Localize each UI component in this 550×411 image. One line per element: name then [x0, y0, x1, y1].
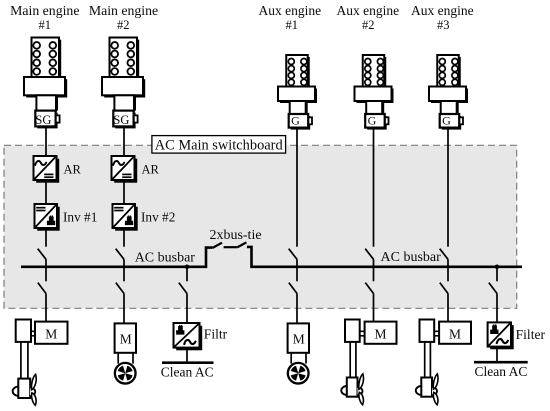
label: Main engine #2 — [89, 3, 158, 32]
wire SG1 to AR — [45, 126, 47, 156]
svg-text:AR: AR — [64, 162, 82, 176]
label box: AC Main switchboard — [152, 136, 286, 154]
aux engine #1 (diesel block) — [278, 55, 317, 114]
rectifier AR (main engine #1) — [34, 156, 82, 183]
AC busbar right section — [247, 247, 522, 267]
svg-text:#2: #2 — [362, 18, 375, 32]
wire AR to Inv #1 — [45, 180, 47, 204]
circuit breaker above busbar (Inv #1) — [38, 249, 46, 268]
motor M (tunnel thruster 1) — [115, 323, 136, 363]
generator G (aux #2) — [365, 113, 388, 129]
svg-text:Filtr: Filtr — [204, 326, 228, 341]
svg-text:Aux engine: Aux engine — [336, 3, 399, 18]
junction node (Filtr tap) — [185, 265, 190, 270]
shaft generator SG1 — [35, 111, 59, 129]
wire generator G2 to breaker — [373, 128, 375, 247]
main engine #2 (diesel block) — [102, 38, 145, 111]
svg-text:#3: #3 — [437, 18, 450, 32]
tunnel thruster fan 1 — [115, 363, 136, 384]
svg-text:M: M — [374, 327, 386, 342]
circuit breaker above busbar (G1) — [289, 249, 297, 268]
harmonic filter Filtr — [174, 323, 228, 350]
wire AR to Inv #2 — [123, 180, 125, 204]
label: Aux engine #1 — [258, 3, 321, 32]
wire Filtr to clean bus — [186, 348, 188, 363]
svg-text:AC busbar: AC busbar — [135, 250, 196, 265]
circuit breaker + feeder below busbar (azimuth thruster 1) — [38, 266, 46, 322]
label: Aux engine #2 — [336, 3, 399, 32]
circuit breaker + feeder below busbar (azimuth thruster 3) — [440, 266, 448, 322]
wire Inv #2 to breaker — [123, 228, 125, 247]
harmonic filter Filter — [488, 322, 546, 349]
shaft generator SG2 — [113, 111, 137, 129]
aux engine #3 (diesel block) — [429, 55, 468, 114]
svg-text:Inv #2: Inv #2 — [141, 210, 175, 225]
switchboard enclosure (AC Main switchboard area) — [4, 145, 517, 308]
motor M (azimuth thruster 2) — [345, 320, 397, 344]
tunnel thruster fan 2 — [288, 363, 309, 384]
svg-text:M: M — [120, 331, 132, 346]
generator G (aux #3) — [440, 113, 463, 129]
label: Aux engine #3 — [411, 3, 474, 32]
svg-text:Aux engine: Aux engine — [258, 3, 321, 18]
svg-text:Clean AC: Clean AC — [474, 364, 527, 379]
azimuth thruster 1 pod and propeller — [13, 342, 37, 405]
main engine #1 (diesel block) — [24, 38, 67, 111]
svg-text:#1: #1 — [286, 18, 299, 32]
circuit breaker above busbar (G2) — [365, 249, 373, 268]
bus-tie breaker blade 2 — [237, 242, 246, 247]
junction node (Filter tap) — [495, 265, 500, 270]
svg-text:G: G — [442, 113, 451, 127]
svg-text:G: G — [368, 113, 377, 127]
svg-text:2xbus-tie: 2xbus-tie — [209, 228, 261, 243]
Clean AC bus (right) — [474, 362, 528, 379]
Clean AC bus (left) — [161, 363, 214, 380]
circuit breaker + feeder below busbar (Filter) — [489, 266, 497, 323]
wire Filter to clean bus — [496, 347, 498, 363]
svg-text:Main engine: Main engine — [89, 3, 158, 18]
svg-text:M: M — [45, 327, 57, 342]
azimuth thruster 3 pod and propeller — [416, 342, 438, 405]
motor M (azimuth thruster 1) — [16, 320, 68, 344]
svg-text:Aux engine: Aux engine — [411, 3, 474, 18]
label: Main engine #1 — [10, 3, 79, 32]
circuit breaker + feeder below busbar (tunnel thruster 2) — [289, 266, 297, 324]
wire SG2 to AR — [123, 126, 125, 156]
inverter Inv #2 — [113, 204, 176, 231]
AC busbar left section — [21, 248, 213, 267]
svg-text:M: M — [293, 331, 305, 346]
svg-text:M: M — [449, 327, 461, 342]
motor M (azimuth thruster 3) — [420, 320, 472, 344]
generator G (aux #1) — [289, 113, 312, 129]
svg-text:AC Main switchboard: AC Main switchboard — [155, 138, 284, 154]
circuit breaker + feeder below busbar (Filtr) — [179, 266, 187, 324]
svg-text:SG: SG — [35, 113, 51, 127]
circuit breaker above busbar (Inv #2) — [116, 249, 124, 268]
svg-text:SG: SG — [113, 113, 129, 127]
svg-text:#2: #2 — [117, 18, 130, 32]
inverter Inv #1 — [35, 204, 98, 231]
circuit breaker + feeder below busbar (tunnel thruster 1) — [116, 266, 124, 324]
svg-text:AR: AR — [142, 162, 160, 176]
svg-text:#1: #1 — [39, 18, 52, 32]
motor M (tunnel thruster 2) — [288, 323, 309, 363]
azimuth thruster 2 pod and propeller — [341, 342, 363, 405]
svg-text:Inv #1: Inv #1 — [63, 210, 97, 225]
svg-text:Clean AC: Clean AC — [161, 364, 214, 379]
rectifier AR (main engine #2) — [112, 156, 160, 183]
bus-tie breaker blade 1 — [213, 243, 222, 248]
wire Inv #1 to breaker — [45, 228, 47, 247]
circuit breaker above busbar (G3) — [440, 249, 448, 268]
svg-text:G: G — [291, 113, 300, 127]
wire generator G1 to breaker — [296, 128, 298, 247]
wire generator G3 to breaker — [447, 128, 449, 247]
svg-text:Filter: Filter — [516, 327, 546, 342]
svg-text:Main engine: Main engine — [10, 3, 79, 18]
svg-text:AC busbar: AC busbar — [381, 250, 442, 265]
aux engine #2 (diesel block) — [355, 55, 394, 114]
circuit breaker + feeder below busbar (azimuth thruster 2) — [365, 266, 373, 322]
bus-tie middle contact — [224, 246, 238, 248]
